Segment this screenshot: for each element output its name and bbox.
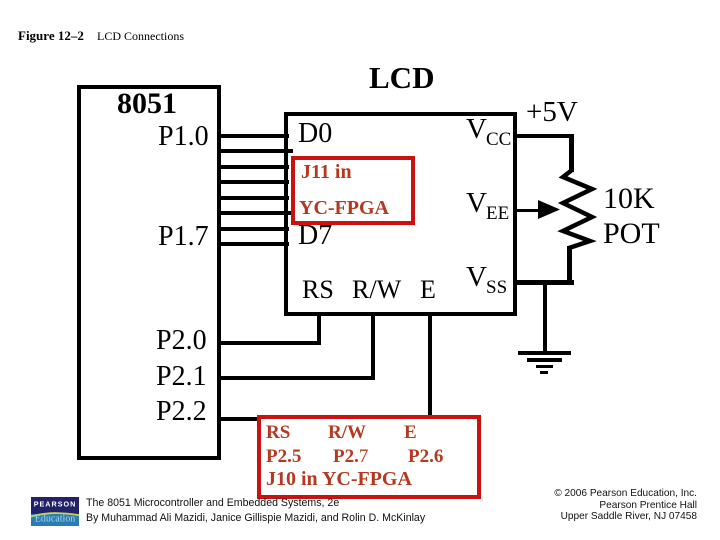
label P2.7 (red) [333, 447, 368, 466]
pin label D0 [298, 120, 332, 148]
wire potentiometer bottom lead [567, 246, 572, 284]
svg-text:Education: Education [35, 514, 76, 525]
pin label P1.7 [158, 223, 209, 251]
pin label P2.1 [156, 363, 207, 391]
wire VEE wiper [517, 209, 546, 212]
pin label R/W [352, 277, 401, 303]
label LCD [369, 62, 434, 93]
LCD module box [284, 112, 517, 316]
label YC-FPGA [299, 198, 389, 218]
wire VSS to ground [517, 280, 574, 285]
callout red box J10 [257, 415, 481, 499]
wire data bus D6 [221, 227, 289, 231]
footer left book credit [86, 496, 425, 526]
pin label VSS [466, 263, 487, 292]
wire data bus D5 [221, 211, 293, 215]
label J11 in [301, 162, 352, 182]
pin label P1.0 [158, 123, 209, 151]
wire data bus D0 [221, 134, 289, 138]
wire R/W vertical [371, 316, 375, 380]
label P2.5 (red) [266, 447, 301, 466]
footer right copyright [554, 488, 697, 523]
wire P2.2 to E [221, 417, 259, 421]
pin label P2.0 [156, 327, 207, 355]
wire +5V down to potentiometer [569, 134, 574, 172]
wire E vertical [428, 316, 432, 419]
label J10 in YC-FPGA [266, 469, 412, 489]
label 8051 [117, 89, 177, 119]
svg-text:PEARSON: PEARSON [34, 500, 77, 509]
label P2.6 (red) [408, 447, 443, 466]
pin label P2.2 [156, 398, 207, 426]
title: Figure 12-2 LCD Connections [18, 29, 84, 42]
wire P2.1 to R/W [221, 376, 375, 380]
wire P2.0 to RS [221, 341, 321, 345]
pin label VCC [466, 115, 487, 144]
label +5V [526, 98, 578, 127]
label POT [603, 219, 660, 249]
wire VCC to +5V [517, 134, 574, 138]
label R/W (red) [328, 423, 366, 442]
pin label RS [302, 277, 334, 303]
wire ground stem [543, 283, 547, 352]
arrow wiper head [538, 200, 561, 220]
wire RS vertical [317, 316, 321, 345]
wire data bus D2 [221, 165, 289, 169]
label 10K [603, 184, 655, 214]
pin label D7 [298, 222, 332, 250]
Pearson Education logo [31, 497, 79, 526]
wire data bus D7 [221, 242, 289, 246]
label E (red) [404, 423, 417, 442]
wire data bus D1 [221, 149, 293, 153]
wire data bus D3 [221, 180, 289, 184]
8051 microcontroller box U1 [77, 85, 221, 460]
pin label VEE [466, 189, 487, 218]
label RS (red) [266, 423, 290, 442]
wire data bus D4 [221, 196, 289, 200]
pin label E [420, 277, 436, 303]
potentiometer R1 10K POT [550, 165, 610, 255]
ground symbol [518, 351, 571, 355]
callout red box J11 [291, 156, 415, 225]
